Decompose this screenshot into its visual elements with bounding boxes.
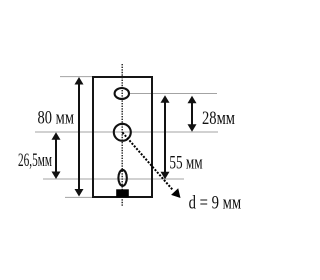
hole 2 (middle, circle d=9) bbox=[114, 124, 131, 141]
svg-text:28мм: 28мм bbox=[202, 108, 235, 129]
extension line top (plate top, left side) bbox=[60, 76, 92, 78]
dimension line 26,5 mm (left inner) bbox=[52, 132, 61, 179]
dimension line 55 mm (right inner) bbox=[161, 95, 170, 179]
svg-text:26,5мм: 26,5мм bbox=[18, 150, 52, 171]
extension line through hole 1 center (right side) bbox=[130, 93, 217, 95]
hole 3 (bottom, vertical oval) bbox=[118, 170, 126, 186]
svg-text:55 мм: 55 мм bbox=[169, 153, 202, 174]
dimension line 28 mm (right outer) bbox=[188, 96, 197, 132]
extension line through hole 2 center (both sides) bbox=[35, 131, 218, 133]
extension line bottom (plate bottom, left side) bbox=[65, 196, 92, 198]
svg-text:d = 9 мм: d = 9 мм bbox=[189, 193, 242, 214]
svg-text:80 мм: 80 мм bbox=[38, 108, 75, 129]
plate outline bbox=[93, 77, 152, 197]
dimension line 80 mm (left outer) bbox=[75, 77, 84, 197]
centerline (vertical dotted axis) bbox=[121, 64, 123, 206]
extension line through hole 3 center (both sides) bbox=[43, 178, 184, 180]
leader (dashed diagonal from hole 2 to label) bbox=[123, 133, 181, 199]
hole 1 (top, horizontal oval) bbox=[115, 88, 129, 99]
black square marker on bottom edge bbox=[116, 189, 129, 197]
